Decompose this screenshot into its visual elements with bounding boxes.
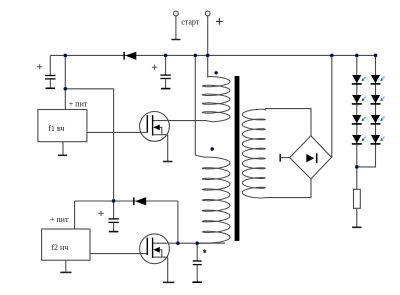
junction node 9 <box>112 199 116 203</box>
junction node 8 <box>64 87 68 91</box>
wire rail to lower primary winding start <box>194 55 196 155</box>
transformer T1 lower primary winding <box>195 155 230 243</box>
svg-text:+ пит: + пит <box>69 99 88 108</box>
Q1 source wire <box>167 135 169 162</box>
wire R1 to ground <box>356 208 358 227</box>
wire mid net with D2 (f2 power / snubber) <box>75 200 178 202</box>
wire bridge DC+ up to rail <box>331 55 333 157</box>
capacitor C5 (Q2 drain snubber) <box>192 243 202 282</box>
capacitor C1 (input electrolytic, top-left) <box>45 55 55 88</box>
ground at f2 <box>60 260 71 272</box>
bridge rectifier U1 <box>290 136 332 179</box>
transformer T1 core <box>235 76 240 241</box>
junction node 10 <box>176 241 180 245</box>
C5 star marking <box>203 249 206 253</box>
transformer T1 upper primary winding <box>202 77 230 122</box>
LED VD7 (column 2) <box>371 115 385 124</box>
wire + terminal stem to rail <box>207 16 209 56</box>
LED VD2 (column 1) <box>352 95 366 104</box>
terminal X1 start <box>171 11 180 40</box>
diode D1 (rail, cathode left) <box>124 52 136 60</box>
transformer T1 secondary winding <box>242 109 265 198</box>
junction node 5 <box>330 54 334 58</box>
op-amp/driver block f1 (HF generator) <box>38 110 87 142</box>
wire f1 output to Q1 gate <box>87 131 147 133</box>
LED VD5 (column 2) <box>371 75 385 84</box>
svg-text:f1 вч: f1 вч <box>48 124 64 133</box>
svg-text:+ пит: + пит <box>50 215 69 224</box>
LED VD8 (column 2) <box>371 135 385 144</box>
wire D2 net down to Q2 drain junction <box>177 201 179 243</box>
op-amp/driver block f2 (LF generator) <box>42 229 90 260</box>
ground at R1 <box>352 226 361 228</box>
wire LED column 2 with jog to junction <box>357 55 376 166</box>
ground at f1 <box>58 142 67 156</box>
junction node 1 <box>64 54 68 58</box>
junction node 3 <box>194 54 198 58</box>
wire down to f2 power input <box>74 201 76 229</box>
capacitor C4 (mid net) <box>108 201 118 232</box>
T1 upper primary polarity dot <box>214 71 217 74</box>
C4 plus label <box>98 211 103 216</box>
ground at Q2 source <box>163 281 174 283</box>
junction node 2 <box>164 54 168 58</box>
junction node 11 <box>195 241 199 245</box>
terminal X2 plus supply <box>205 11 210 16</box>
wire Q1 drain to upper primary winding end <box>153 120 207 122</box>
svg-text:f2 нч: f2 нч <box>51 243 68 252</box>
wire secondary top to bridge AC1 <box>265 109 311 136</box>
LED VD1 (column 1) <box>352 75 366 84</box>
ground at Q1 source <box>163 161 173 163</box>
transistor Q2 (lower MOSFET) <box>140 234 170 264</box>
junction node 7 <box>374 54 378 58</box>
diode D2 (mid net, cathode left) <box>134 197 146 205</box>
wire secondary bottom to bridge AC2 <box>265 179 311 198</box>
wire top supply rail <box>50 54 375 56</box>
transistor Q1 (upper MOSFET) <box>140 112 170 142</box>
wire rail to upper primary winding start <box>207 55 209 77</box>
svg-text:старт: старт <box>181 18 200 27</box>
junction node 4 <box>206 54 210 58</box>
wire Q2 drain to lower primary winding end <box>153 242 225 244</box>
label plus supply <box>216 18 223 25</box>
LED VD3 (column 1) <box>352 115 366 124</box>
capacitor C2 (rail decoupling) <box>160 55 170 88</box>
junction node 12 <box>355 165 359 169</box>
junction node 6 <box>355 54 359 58</box>
T1 lower primary polarity dot <box>211 147 214 150</box>
LED VD6 (column 2) <box>371 95 385 104</box>
LED VD4 (column 1) <box>352 135 366 144</box>
Q2 source wire <box>167 257 169 282</box>
C2 plus label <box>152 65 157 70</box>
C1 plus label <box>37 64 42 69</box>
bridge DC- stub terminal <box>280 154 289 162</box>
resistor R1 <box>354 189 361 208</box>
wire LED column 1 <box>356 55 358 189</box>
wire from node A down to f1 power input <box>64 55 66 109</box>
wire f2 output to Q2 gate <box>90 253 147 255</box>
wire node B to C4/D2 net (L-shape) <box>65 89 113 201</box>
